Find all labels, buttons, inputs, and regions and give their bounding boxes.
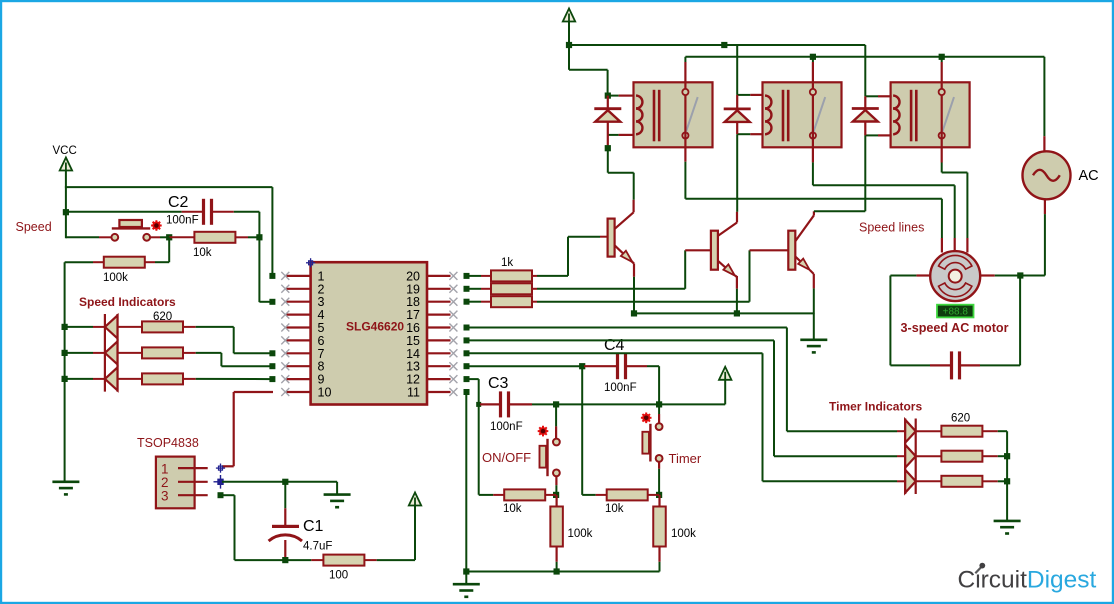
svg-text:100k: 100k (671, 528, 696, 540)
svg-text:8: 8 (318, 360, 325, 374)
wire Timer bottom (658, 462, 660, 495)
wire pin19 to 1k (464, 286, 492, 292)
node timer LED2 gnd (1004, 453, 1010, 459)
power symbol VCC (tsop) (409, 493, 421, 506)
relay RL3 coil leads (865, 96, 891, 135)
wire pin10 to TSOP pin1 (red net) (222, 392, 273, 466)
label 3-speed AC motor (901, 321, 1009, 335)
wire VCC arrow (tsop) (414, 506, 416, 560)
svg-text:C1: C1 (303, 518, 324, 535)
label C4 value 100nF (604, 382, 637, 394)
resistor 620 (timer 1) (916, 426, 998, 437)
wire LED/ground vertical left (64, 262, 66, 482)
label 10k (timer) (605, 503, 624, 515)
IC pin numbers (318, 269, 421, 399)
logo CircuitDigest (958, 563, 1097, 594)
label Timer (669, 451, 702, 466)
wire C1 vertical (284, 482, 286, 525)
resistor 620 (timer 3) (916, 476, 998, 487)
wire end pin8 (269, 363, 275, 369)
wire end pin3 (269, 299, 275, 305)
wire button to 10k (150, 236, 169, 238)
node Timer divider (656, 492, 662, 498)
wire anode timer LED2 (897, 455, 905, 457)
node 10k/C2 right (256, 234, 262, 240)
svg-text:11: 11 (407, 386, 420, 400)
svg-text:4: 4 (318, 308, 325, 322)
resistor 10k (on/off) (479, 489, 556, 500)
wire 620-3 to pin9 (196, 378, 273, 380)
wire TSOP gnd stub (336, 482, 338, 495)
label C1 value 4.7uF (303, 541, 332, 553)
wire end pin7 (269, 350, 275, 356)
svg-text:10: 10 (318, 386, 332, 400)
svg-text:Timer: Timer (669, 451, 702, 466)
power symbol VCC (top-center) (563, 9, 575, 46)
LED column rails (timer indicators) (905, 419, 916, 495)
LED timer indicator 3 (905, 470, 916, 493)
svg-text:7: 7 (318, 347, 325, 361)
wire C4 right down to Timer node (647, 366, 659, 404)
svg-text:18: 18 (406, 295, 420, 309)
resistor 10k (speed) (169, 232, 259, 243)
svg-text:Speed lines: Speed lines (859, 221, 924, 235)
AC source V1 (1023, 151, 1071, 199)
LCD readout +88.8 (937, 305, 974, 318)
node C1 top (282, 479, 288, 485)
svg-text:17: 17 (406, 308, 420, 322)
capacitor C1 4.7uF (electrolytic) (269, 525, 302, 560)
node AC/motor/capacitor (1017, 272, 1023, 278)
svg-text:100k: 100k (103, 272, 128, 284)
label 100k (on/off) (568, 528, 593, 540)
IC pin no-connect x marks (281, 272, 457, 396)
wire VCC line buttons (556, 380, 725, 404)
ground (speed indicators) (52, 482, 79, 495)
wire AC common rail (y=56.8) (685, 56, 1044, 58)
diode D3 (flyback relay3) (852, 96, 879, 135)
label Speed (16, 220, 52, 234)
interactive marker ON/OFF (538, 426, 549, 437)
wire pin13 to C4 (464, 363, 583, 369)
svg-text:5: 5 (318, 321, 325, 335)
diode D2 (flyback relay2) (724, 95, 751, 134)
node diode1 top (605, 93, 611, 99)
node Timer button top (656, 401, 662, 407)
resistor 1k #1 (491, 270, 537, 281)
wire TSOP pin3 down (221, 495, 286, 560)
capacitor C2 (182, 199, 234, 225)
wire pin18 to 1k (464, 299, 492, 305)
resistor 1k #2 (491, 283, 537, 294)
wire 620-1 to pin7 (196, 327, 273, 353)
IR receiver TSOP4838 body (156, 457, 195, 509)
wire ON/OFF top stub (555, 404, 557, 438)
svg-text:VCC: VCC (53, 145, 77, 157)
node on VCC stem at C2 line (63, 209, 69, 215)
wire C2 right to 10k junction (234, 212, 260, 302)
wire 620-2 to pin8 (196, 353, 273, 366)
wire AC source bottom (1020, 200, 1045, 276)
capacitor motor-run (930, 351, 980, 379)
label 100k (timer) (671, 528, 696, 540)
label C2 (168, 194, 189, 211)
label C1 (303, 518, 324, 535)
label 100k (speed) (103, 272, 128, 284)
label Speed Indicators (79, 295, 176, 309)
svg-text:3: 3 (161, 489, 169, 504)
label C4 (604, 337, 625, 354)
wire 1k-3 to Q3 base (537, 250, 788, 301)
node ON/OFF divider (553, 492, 559, 498)
IC U1 SLG46620 body (311, 262, 427, 404)
svg-text:SLG46620: SLG46620 (346, 320, 404, 334)
resistor 100k (on/off) (550, 495, 563, 572)
resistor 10k (timer) (582, 489, 659, 500)
wire Timer top stub (658, 404, 660, 423)
transistor Q3 (NPN) (788, 211, 814, 288)
diode D1 (flyback relay1) (594, 96, 621, 148)
svg-text:9: 9 (318, 373, 325, 387)
wire end TSOP pin3 (218, 492, 224, 498)
wire TSOP pin2 to ground/C1 (222, 481, 337, 483)
wire pin12 to C3 (464, 376, 479, 495)
wire relay2 pole bottom (speed line 2) (813, 95, 955, 238)
svg-text:16: 16 (406, 321, 420, 335)
label C3 value 100nF (490, 421, 523, 433)
wire cathode LED3 to ground rail (62, 376, 105, 382)
wire relay1 coil to Q1 collector (608, 148, 634, 200)
resistor 100k (speed) (65, 257, 145, 268)
wire ON/OFF bottom (555, 476, 557, 495)
wire anode timer LED3 (897, 480, 905, 482)
resistor 100k (timer) (653, 495, 666, 572)
pushbutton Speed (111, 220, 150, 241)
svg-text:ON/OFF: ON/OFF (482, 450, 531, 465)
ground (timer indicators) (994, 521, 1021, 534)
wire junction to 100k (144, 237, 169, 262)
wire 1k-2 to Q2 base (537, 250, 711, 288)
wire relay2 pole top (812, 57, 814, 89)
resistor 620 (speed 2) (118, 347, 196, 358)
svg-text:1k: 1k (501, 257, 513, 269)
svg-text:Speed: Speed (16, 220, 52, 234)
pushbutton Timer (642, 423, 662, 462)
resistor 620 (timer 2) (916, 451, 998, 462)
node C1 bottom (282, 557, 288, 563)
wire cathode LED1 to ground rail (62, 324, 105, 330)
wire relay3 pole top (941, 57, 943, 89)
IC U1 label SLG46620 (346, 320, 404, 334)
svg-text:Timer Indicators: Timer Indicators (829, 400, 922, 414)
svg-text:4.7uF: 4.7uF (303, 541, 332, 553)
wire C2 line left segment (66, 211, 182, 213)
LED speed indicator 2 (105, 341, 118, 364)
pushbutton ON/OFF (540, 439, 560, 477)
resistor 620 (speed 3) (118, 373, 196, 384)
node diode1 bottom (605, 145, 611, 151)
node C4 left (579, 363, 585, 369)
svg-text:2: 2 (318, 282, 325, 296)
wire VCC rail 1 (y=45) (569, 44, 865, 46)
wire anode timer LED1 (897, 430, 905, 432)
wire relay1 pole bottom (speed line 1) (685, 95, 942, 238)
wire pin11 to ground rail (464, 389, 470, 572)
svg-text:19: 19 (406, 282, 420, 296)
label C2 value 100nF (166, 215, 199, 227)
svg-text:100k: 100k (568, 528, 593, 540)
wire relay3 pole bottom (speed line 3) (942, 95, 968, 238)
svg-text:AC: AC (1079, 168, 1099, 184)
power symbol VCC (top-left) (60, 158, 72, 239)
TSOP pin stubs (178, 468, 208, 495)
label Speed lines (859, 221, 924, 235)
svg-text:Speed Indicators: Speed Indicators (79, 295, 176, 309)
node relay2 pole on AC rail (810, 54, 816, 60)
svg-text:15: 15 (406, 334, 420, 348)
wire motor right to AC node (995, 275, 1021, 277)
label 10k (speed) (193, 247, 212, 259)
wire motor left to run capacitor (890, 276, 930, 366)
wire Q3 emitter down (813, 288, 815, 313)
wire 10k node down to pin3 (259, 301, 272, 303)
ground (TSOP) (324, 495, 351, 508)
LED column rails (speed indicators) (105, 314, 118, 392)
wire cathode LED2 to ground rail (62, 350, 105, 356)
LED timer indicator 2 (905, 445, 916, 468)
resistor 100 (tsop supply) (285, 555, 415, 566)
TSOP pin1 marker (216, 464, 225, 473)
LED speed indicator 1 (105, 315, 118, 338)
TSOP pin2 marker (214, 475, 228, 489)
svg-text:100nF: 100nF (604, 382, 637, 394)
svg-text:13: 13 (406, 360, 420, 374)
svg-text:10k: 10k (193, 247, 212, 259)
resistor 620 (speed 1) (118, 321, 196, 332)
wire 1k-1 to Q1 base (537, 237, 608, 276)
wire pin20 to 1k (464, 273, 492, 279)
relay RL1 (634, 82, 713, 147)
wire C3 right to button node (532, 403, 556, 405)
svg-text:+88.8: +88.8 (943, 307, 969, 318)
svg-text:100nF: 100nF (166, 215, 199, 227)
svg-text:20: 20 (406, 269, 420, 283)
node C3 left (476, 402, 481, 407)
interactive marker Timer (641, 413, 652, 424)
label 100 value (329, 570, 348, 582)
svg-text:14: 14 (406, 347, 420, 361)
wire end pin1 (269, 273, 275, 279)
wire relay3 coil to Q3 collector (814, 135, 865, 211)
label Timer Indicators (829, 400, 922, 414)
label AC (1079, 168, 1099, 184)
capacitor C4 (584, 353, 647, 379)
wire pin14 to timer LED3 (464, 350, 898, 481)
relay RL2 (763, 82, 842, 147)
svg-text:100nF: 100nF (490, 421, 523, 433)
svg-text:100: 100 (329, 570, 348, 582)
wire pin15 to timer LED2 (464, 337, 898, 456)
resistor 1k #3 (491, 296, 537, 307)
wire C4 node down to Timer 10k (581, 366, 583, 495)
wire pin16 to timer LED1 (464, 325, 898, 432)
capacitor C3 (480, 391, 532, 417)
node ground rail left (463, 568, 469, 574)
wire button row left (66, 236, 111, 238)
svg-text:620: 620 (153, 311, 172, 323)
wire emitter ground rail (634, 313, 814, 340)
label 620 (timer) (951, 413, 970, 425)
node timer LED3 gnd (1004, 478, 1010, 484)
svg-text:6: 6 (318, 334, 325, 348)
svg-text:C3: C3 (488, 375, 509, 392)
power symbol VCC (button rail) (719, 367, 731, 380)
motor terminal stubs (916, 238, 994, 276)
wire bottom ground rail (466, 571, 659, 573)
node Q1 emitter rail (631, 310, 637, 316)
IC origin marker (306, 258, 315, 267)
interactive marker on Speed button (151, 220, 162, 231)
motor M1 3-speed AC motor (930, 251, 980, 301)
wire Q1 emitter to rail (633, 277, 635, 314)
node ground rail 100k (554, 568, 560, 574)
transistor Q2 (NPN) (711, 212, 737, 289)
wire VCC jog to relay1 coil (569, 45, 608, 96)
wire VCC rail to relay3 coil (864, 45, 866, 96)
wire end pin9 (269, 376, 275, 382)
svg-text:10k: 10k (503, 503, 522, 515)
node ON/OFF button top (553, 401, 559, 407)
label 10k (on/off) (503, 503, 522, 515)
relay RL2 coil leads (737, 95, 763, 134)
wire VCC rail to relay2 coil (736, 45, 738, 95)
TSOP pin numbers (161, 462, 169, 504)
svg-text:10k: 10k (605, 503, 624, 515)
wire Q2 emitter to rail (736, 289, 738, 314)
transistor Q1 (NPN) (608, 200, 634, 277)
IC pin stubs (286, 276, 451, 392)
wire AC rail to source (1043, 57, 1045, 152)
node relay3 pole on AC rail (939, 54, 945, 60)
svg-text:C2: C2 (168, 194, 189, 211)
power label VCC (top-left) (53, 145, 77, 157)
wire relay2 coil to Q2 collector (736, 134, 738, 212)
node VCC stem / rail1 (566, 42, 572, 48)
label 1k (501, 257, 513, 269)
LED speed indicator 3 (105, 367, 118, 390)
label C3 (488, 375, 509, 392)
wire AC node down to run capacitor (980, 276, 1020, 366)
relay RL3 (891, 82, 970, 147)
wire timer LEDs to ground (998, 431, 1007, 521)
ground (bottom center) (453, 572, 480, 597)
svg-text:3: 3 (318, 295, 325, 309)
LED timer indicator 1 (905, 420, 916, 443)
label TSOP4838 (137, 436, 199, 450)
wire relay1 pole top (684, 57, 686, 89)
svg-text:12: 12 (406, 373, 420, 387)
node Q2 emitter rail (734, 310, 740, 316)
wire VCC to pin1 riser (y=187) (65, 187, 273, 273)
svg-text:TSOP4838: TSOP4838 (137, 436, 199, 450)
node button/10k/100k (166, 234, 172, 240)
relay RL1 coil leads (608, 96, 635, 135)
node on VCC rail 1 (721, 42, 727, 48)
svg-text:620: 620 (951, 413, 970, 425)
ground (transistor emitters) (800, 340, 827, 353)
label 620 (speed) (153, 311, 172, 323)
svg-text:3-speed AC motor: 3-speed AC motor (901, 321, 1009, 335)
label ON/OFF (482, 450, 531, 465)
svg-text:1: 1 (318, 269, 325, 283)
